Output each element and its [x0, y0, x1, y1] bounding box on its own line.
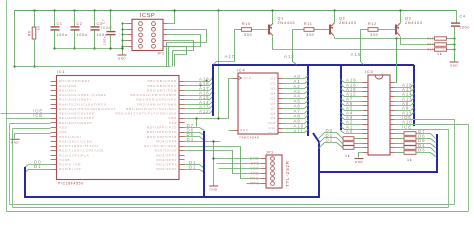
node VSS gnd junction: [212, 140, 214, 142]
svg-text:D3: D3: [418, 148, 425, 153]
svg-text:330: 330: [244, 33, 252, 37]
wire ICSP VCC to rail: [168, 11, 175, 24]
wire IC3 gnd: [359, 153, 363, 158]
pin IC1 right row 1: [179, 81, 185, 83]
wire IC3 A5 from bus: [341, 108, 363, 111]
pad JP1 RTS: [271, 182, 275, 186]
pin JP2 left 5: [127, 34, 133, 36]
wire A7 to bus: [283, 110, 309, 114]
pin IC3 left 8: [363, 115, 369, 117]
resistor R10: [242, 28, 252, 32]
wire rail to C2: [74, 11, 76, 27]
wire D1 to IC1: [25, 170, 51, 173]
node MCLR junction: [33, 65, 35, 67]
pin IC1 right row 6: [179, 104, 185, 106]
wire Q1 collector line: [273, 49, 435, 51]
pin JP2 left 7: [127, 40, 133, 42]
pin IC4 Q6: [279, 103, 283, 105]
svg-text:100n: 100n: [459, 26, 470, 30]
svg-text:A0: A0: [346, 129, 353, 134]
wire MCLR horizontal: [15, 66, 171, 68]
node VDD riser: [195, 117, 197, 119]
svg-text:RB1/AN10/INT1/SCK/SCL: RB1/AN10/INT1/SCK/SCL: [126, 107, 177, 111]
pin IC1 right row 2: [179, 85, 185, 87]
pin IC3 left 3: [363, 91, 369, 93]
svg-text:RA1/AN1: RA1/AN1: [59, 88, 77, 92]
wire VSS down to gnd: [14, 134, 16, 139]
wire IC3 A7 from bus: [341, 99, 363, 102]
svg-text:RD0/SPP0: RD0/SPP0: [156, 167, 177, 171]
svg-text:330: 330: [306, 33, 314, 37]
pin IC1 right row 5: [179, 99, 185, 101]
svg-text:PIC18F4550: PIC18F4550: [58, 182, 84, 186]
wire C4 to gnd: [454, 27, 456, 62]
pin IC1 left row 11: [51, 127, 57, 129]
wire rail to C3: [94, 11, 96, 27]
wire IC3 A15 from bus: [341, 89, 363, 92]
pin IC3 left 5: [363, 101, 369, 103]
pin IC3 right 22: [391, 129, 395, 131]
pin IC1 left row 3: [51, 90, 57, 92]
wire RES stub: [229, 130, 233, 132]
wire R10 left: [235, 29, 242, 31]
svg-text:RA4/T0CKI/C1OUT/RCV: RA4/T0CKI/C1OUT/RCV: [59, 102, 107, 106]
svg-text:RD7/SPP7/P1D: RD7/SPP7/P1D: [147, 126, 177, 130]
wire IC3 to RDH3: [395, 147, 405, 149]
pin IC3 right 21: [391, 133, 395, 135]
wire JP2 left stub: [123, 34, 127, 36]
svg-text:GND: GND: [450, 63, 459, 67]
svg-text:Q1: Q1: [278, 17, 285, 21]
svg-text:RA2/AN2/VREF-/CVREF: RA2/AN2/VREF-/CVREF: [59, 93, 107, 97]
wire left outer vertical: [6, 1, 8, 212]
wire /CE long run: [395, 130, 449, 208]
pin IC4 Q4: [279, 93, 283, 95]
pin IC3 left 7: [363, 110, 369, 112]
wire bottom outer horizontal: [7, 211, 469, 213]
wire D5 to bus right: [416, 144, 436, 148]
resistor RDH0 1k: [404, 132, 416, 136]
resistor R11: [304, 28, 314, 32]
wire D4 row across bus: [185, 141, 221, 143]
wire A6 to bus: [283, 105, 309, 109]
wire Q3 collector down: [400, 37, 402, 45]
svg-text:/CE: /CE: [33, 113, 43, 118]
wire IC3 to RDH2: [395, 143, 405, 145]
wire A9 to bus: [395, 108, 415, 111]
svg-text:VUSB: VUSB: [59, 158, 70, 162]
wire A12 to bus: [185, 111, 213, 114]
bus D right link: [319, 134, 437, 172]
resistor R12: [368, 28, 378, 32]
svg-text:GND: GND: [11, 141, 20, 145]
pad JP2 row 1: [139, 22, 143, 26]
resistor R15: [435, 37, 447, 40]
wire /OE long run: [395, 120, 455, 205]
pin IC3 right 30: [391, 91, 395, 93]
pin IC1 left row 6: [51, 104, 57, 106]
pin IC3 left 16: [363, 152, 369, 154]
svg-text:RB4/AN11/KBI0/CSSPP: RB4/AN11/KBI0/CSSPP: [130, 93, 177, 97]
pin IC1 right row 20: [179, 169, 185, 171]
svg-text:RD6/SPP6/P1C: RD6/SPP6/P1C: [147, 130, 177, 134]
svg-text:2N4403: 2N4403: [405, 21, 423, 25]
svg-text:Q10: Q10: [268, 121, 276, 125]
svg-text:R10: R10: [242, 22, 251, 26]
wire R8 to MCLR net: [34, 39, 36, 67]
pin IC3 right 19: [391, 143, 395, 145]
wire A18 to bus: [185, 83, 213, 86]
wire A13 to bus: [293, 30, 297, 65]
svg-text:CLK: CLK: [244, 76, 252, 80]
pin IC1 left row 7: [51, 108, 57, 110]
node C1 gnd: [53, 47, 55, 49]
pin IC3 left 1: [363, 82, 369, 84]
pin JP2 left 1: [127, 23, 133, 25]
pin IC1 right row 14: [179, 141, 185, 143]
wire IC1 row9 to IC4 clock riser: [185, 118, 229, 120]
wire row11 to left run: [13, 128, 51, 130]
node rail-Q3: [399, 9, 401, 11]
wire IC3 to RDH0: [395, 133, 405, 135]
svg-text:ICSP: ICSP: [140, 13, 156, 19]
pin IC1 right row 7: [179, 108, 185, 110]
pin IC1 right row 10: [179, 122, 185, 124]
node rail MCLR junction: [13, 65, 15, 67]
svg-text:RA5/AN4/SS/HLVDIN/C2OUT: RA5/AN4/SS/HLVDIN/C2OUT: [59, 107, 116, 111]
svg-text:R12: R12: [368, 22, 377, 26]
svg-text:D2: D2: [326, 138, 333, 143]
wire A18 to bus: [395, 84, 415, 88]
pin IC1 right row 18: [179, 159, 185, 161]
svg-text:RC5/D+/VP: RC5/D+/VP: [59, 167, 81, 171]
pin IC4 Q1: [279, 78, 283, 80]
wire D0 to IC1: [25, 165, 51, 168]
pin IC3 right 28: [391, 101, 395, 103]
svg-text:GND: GND: [118, 56, 127, 60]
pin IC1 right row 9: [179, 118, 185, 120]
pin JP2 right 6: [163, 34, 168, 36]
wire rail end down: [14, 11, 16, 67]
wire C1 to gnd rail: [54, 31, 56, 49]
svg-text:Q9: Q9: [271, 116, 277, 120]
wire A11 to bus: [395, 112, 415, 116]
node PGD staircase join: [206, 80, 208, 82]
pin JP2 right 2: [163, 23, 168, 25]
wire IC3 A4 from bus: [341, 113, 363, 116]
svg-text:RC1/T1OSI/CCP2/UOE: RC1/T1OSI/CCP2/UOE: [59, 149, 104, 153]
wire RD1 to IC3: [355, 143, 363, 145]
svg-text:Q2: Q2: [271, 82, 277, 86]
wire rail corner to C4: [456, 11, 458, 23]
pin IC1 right row 8: [179, 113, 185, 115]
pin IC3 left 4: [363, 96, 369, 98]
pin IC1 left row 18: [51, 159, 57, 161]
pin IC1 left row 2: [51, 85, 57, 87]
bus A[0..19] vertical left: [213, 65, 414, 116]
bus A mid vertical at IC4: [307, 65, 309, 136]
svg-text:RB0/AN12/INT0/FLT0/SDI/SDA: RB0/AN12/INT0/FLT0/SDI/SDA: [116, 112, 177, 116]
svg-text:R8: R8: [28, 31, 32, 36]
svg-text:RC0/T1OSO/T13CKI: RC0/T1OSO/T13CKI: [59, 144, 99, 148]
pin IC1 left row 5: [51, 99, 57, 101]
wire VDD riser stub: [196, 119, 198, 127]
transistor Q1 2N4403: [269, 23, 273, 35]
wire D7 to D bus: [185, 128, 205, 131]
wire ICSP mclr staircase: [168, 47, 187, 67]
svg-text:GND: GND: [210, 187, 219, 191]
bus A vertical left of IC3: [340, 65, 342, 130]
pin IC3 right 20: [391, 138, 395, 140]
resistor R8: [32, 27, 36, 39]
svg-text:JP1: JP1: [266, 151, 274, 155]
pin JP2 right 8: [163, 40, 168, 42]
svg-text:R15: R15: [428, 37, 434, 41]
svg-text:VSS: VSS: [59, 130, 67, 134]
pad JP2 row 3: [139, 33, 143, 37]
pin IC3 right 32: [391, 82, 395, 84]
wire row10 to left run: [10, 123, 51, 125]
wire ICSP aux staircase: [168, 41, 194, 67]
wire A14 to bus: [185, 102, 213, 105]
wire IC3 A19 from bus: [341, 80, 363, 83]
ground below IC3: [355, 159, 364, 164]
node C7 gnd: [109, 47, 111, 49]
pin IC4 Q9: [279, 118, 283, 120]
wire D7 to bus right: [416, 134, 436, 139]
node rail VDD tap: [217, 9, 219, 11]
pin IC4 CLK: [238, 76, 241, 80]
pin JP1 TXD: [261, 173, 267, 175]
ground below ICSP: [118, 55, 127, 60]
pin IC4 CLK stub: [233, 78, 239, 80]
wire Q2 collector down: [334, 37, 336, 39]
pin IC3 right 23: [391, 124, 395, 126]
node R13 gnd: [453, 48, 455, 50]
wire A4 to bus: [283, 96, 309, 99]
bus A right vertical at IC3: [413, 65, 415, 126]
svg-text:330: 330: [370, 33, 378, 37]
ic IC4 74HC4040 body: [238, 73, 278, 134]
svg-text:VSS: VSS: [169, 121, 177, 125]
svg-text:A13: A13: [284, 54, 295, 59]
wire RD2 to IC3: [355, 147, 363, 149]
wire D2 lower to D bus: [185, 170, 205, 173]
node JP2 gnd vert: [122, 40, 124, 42]
ground mid under IC1: [209, 186, 218, 191]
resistor R14: [435, 43, 447, 46]
pin IC3 right 17: [391, 152, 395, 154]
node JP2 gnd vert: [122, 46, 124, 48]
pad JP1 VCC: [271, 167, 275, 171]
wire to IC3 VCC pin: [396, 39, 398, 83]
pin IC1 right row 19: [179, 164, 185, 166]
wire D6 to D bus: [185, 133, 205, 136]
svg-text:100n: 100n: [57, 33, 68, 37]
wire RXD to JP1: [185, 147, 261, 179]
wire A10 long run: [395, 125, 469, 212]
node rail-R8: [33, 9, 35, 11]
wire D6 to bus right: [416, 139, 436, 143]
svg-text:RD3/SPP3: RD3/SPP3: [156, 153, 177, 157]
svg-text:TXD: TXD: [250, 172, 259, 176]
bus D vertical center: [203, 131, 205, 196]
pin IC1 left row 14: [51, 141, 57, 143]
wire IC3 A6 from bus: [341, 103, 363, 106]
wire JP1 GND to gnd vert: [214, 158, 261, 160]
pin IC1 left row 10: [51, 122, 57, 124]
svg-text:1k: 1k: [37, 25, 41, 30]
wire A8 to bus: [283, 115, 309, 119]
pad JP2 row 4: [139, 39, 143, 43]
wire A5 to bus: [283, 101, 309, 104]
svg-text:RXD: RXD: [250, 177, 259, 181]
wire rail to C7: [110, 11, 112, 32]
svg-text:RC6/TX/CK: RC6/TX/CK: [155, 149, 177, 153]
wire Q1 collector down: [272, 37, 274, 50]
svg-text:1k: 1k: [345, 154, 350, 158]
svg-text:R13: R13: [428, 47, 434, 51]
wire JP2 left stub: [123, 40, 127, 42]
capacitor C2: [71, 27, 80, 30]
svg-text:Q6: Q6: [271, 101, 277, 105]
svg-text:100n: 100n: [77, 33, 88, 37]
wire D4 to bus right: [416, 148, 436, 153]
svg-text:Q1: Q1: [271, 77, 277, 81]
pad JP1 RXD: [271, 177, 275, 181]
wire A13 to bus: [395, 98, 415, 102]
pin IC1 left row 12: [51, 132, 57, 134]
svg-text:VDD: VDD: [59, 126, 68, 130]
wire left vertical /CE run: [12, 129, 14, 208]
ground right of C4: [450, 62, 459, 67]
node R15 gnd: [453, 37, 455, 39]
wire ICSP PGD staircase: [167, 30, 207, 67]
wire R11 to Q2 base: [315, 29, 330, 31]
wire VCC drop: [396, 39, 398, 83]
pad JP2 row 5: [139, 44, 143, 48]
wire VSS row to gnd leg: [15, 133, 51, 135]
wire C2 to gnd rail: [74, 31, 76, 49]
node ICSP VCC rail: [173, 9, 175, 11]
pin IC3 left 12: [363, 133, 369, 135]
wire A8 to bus: [395, 103, 415, 106]
pin IC3 left 15: [363, 147, 369, 149]
svg-text:RES: RES: [240, 128, 248, 132]
wire A19 to bus: [185, 78, 213, 82]
resistor RDH2 1k: [404, 142, 416, 146]
svg-text:Q5: Q5: [271, 96, 277, 100]
wire bottom /CE horizontal: [13, 207, 449, 209]
wire IC3 A1 from bus: [341, 127, 363, 130]
node rail-C3: [93, 9, 95, 11]
node C3 gnd: [93, 47, 95, 49]
wire A1 to bus: [283, 81, 309, 84]
svg-text:R11: R11: [304, 22, 313, 26]
connector JP2 ICSP header: [132, 19, 163, 50]
wire JP2 left stub: [123, 23, 127, 25]
wire /OE from left edge: [1, 113, 51, 115]
svg-text:RB5/KBI1/PGM: RB5/KBI1/PGM: [147, 88, 177, 92]
pin IC1 left row 8: [51, 113, 57, 115]
svg-text:D2: D2: [189, 165, 196, 170]
pin IC1 left row 4: [51, 95, 57, 97]
svg-text:RE1/AN6/CK2SPP: RE1/AN6/CK2SPP: [59, 116, 95, 120]
pin JP1 VCC: [261, 168, 267, 170]
wire IC3 A0 from bus: [341, 131, 363, 134]
svg-text:RA0/AN0: RA0/AN0: [59, 84, 77, 88]
wire A17 to bus: [185, 88, 213, 91]
svg-text:RD2/SPP2: RD2/SPP2: [156, 158, 177, 162]
node rail-C7: [109, 9, 111, 11]
wire R15 to gnd vert: [447, 38, 455, 40]
wire A16 to bus: [185, 92, 213, 96]
svg-text:IC3: IC3: [365, 70, 373, 74]
pin IC3 left 13: [363, 138, 369, 140]
svg-text:A17: A17: [225, 54, 236, 59]
wire IC3 A2 from bus: [341, 122, 363, 125]
wire D1 lower to D bus: [185, 165, 205, 169]
capacitor C3: [91, 27, 100, 30]
wire VSS to gnd: [213, 142, 215, 186]
svg-text:JP2: JP2: [157, 52, 165, 56]
svg-text:RC7/RX/DT/SDO: RC7/RX/DT/SDO: [144, 144, 177, 148]
node rail-Q1: [271, 9, 273, 11]
pin IC4 Q5: [279, 98, 283, 100]
pin IC4 Q11: [279, 128, 283, 130]
svg-text:RC4/D-/VM: RC4/D-/VM: [59, 163, 81, 167]
pin IC1 left row 19: [51, 164, 57, 166]
pin IC1 right row 15: [179, 146, 185, 148]
wire JP2 left pins to gnd: [122, 24, 124, 55]
svg-text:1k: 1k: [407, 158, 412, 162]
svg-text:D1: D1: [34, 164, 41, 169]
wire A11 to bus: [283, 130, 309, 133]
wire capacitor gnd rail: [55, 48, 123, 50]
wire JP1 VCC stub: [219, 168, 261, 170]
wire D3 to bus right: [416, 153, 436, 157]
pin IC4 Q10: [279, 123, 283, 125]
wire Q2 emitter to rail: [334, 11, 336, 24]
wire JP2 left stub: [123, 46, 127, 48]
svg-text:100n: 100n: [103, 36, 107, 45]
wire /CE from left edge: [7, 118, 51, 120]
node rail-Q2: [333, 9, 335, 11]
svg-text:1k: 1k: [437, 52, 442, 56]
node C2 gnd: [73, 47, 75, 49]
wire C7 to gnd rail: [110, 35, 112, 49]
pin IC3 left 14: [363, 143, 369, 145]
svg-text:VDD: VDD: [168, 116, 177, 120]
pin IC3 right 26: [391, 110, 395, 112]
pin IC4 Q2: [279, 83, 283, 85]
svg-text:RC2/CCP1/P1A: RC2/CCP1/P1A: [59, 153, 89, 157]
wire bottom /OE horizontal: [10, 204, 455, 206]
ic IC3 EPROM body: [368, 75, 390, 155]
pin IC3 right 25: [391, 115, 395, 117]
wire D0 from bus: [319, 133, 343, 139]
capacitor C4: [451, 23, 460, 26]
svg-text:R14: R14: [428, 42, 434, 46]
pin IC4 Q7: [279, 108, 283, 110]
resistor RDH1 1k: [404, 137, 416, 141]
pin JP1 CTS: [261, 163, 267, 165]
transistor Q3 2N4403: [396, 23, 400, 35]
pad JP1 TXD: [271, 172, 275, 176]
svg-text:74HC4040: 74HC4040: [239, 136, 259, 140]
svg-text:RB3/AN9/CCP2/VPO: RB3/AN9/CCP2/VPO: [136, 98, 177, 102]
svg-text:A12: A12: [199, 109, 210, 114]
